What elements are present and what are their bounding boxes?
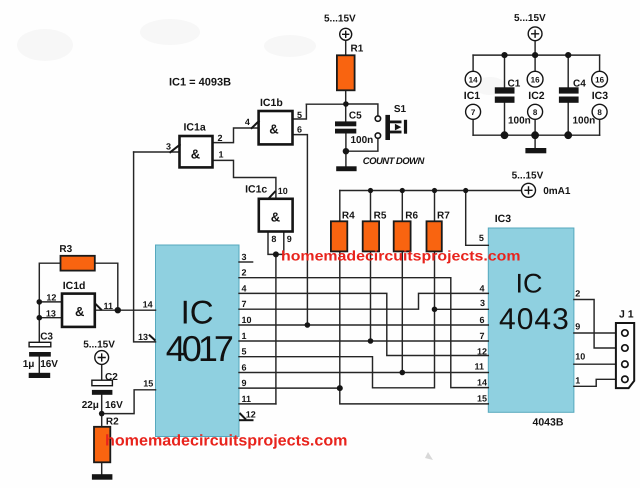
svg-text:11: 11 <box>474 362 484 372</box>
svg-text:C4: C4 <box>573 78 586 89</box>
svg-text:9: 9 <box>287 234 292 244</box>
svg-text:10: 10 <box>278 186 288 196</box>
svg-text:IC1c: IC1c <box>245 184 267 196</box>
svg-text:6: 6 <box>297 125 302 135</box>
svg-text:&: & <box>191 147 200 162</box>
svg-text:homemadecircuitsprojects.com: homemadecircuitsprojects.com <box>281 247 521 263</box>
svg-text:IC1: IC1 <box>464 90 481 102</box>
svg-text:5: 5 <box>242 347 247 357</box>
svg-text:S1: S1 <box>394 104 407 115</box>
svg-text:IC1a: IC1a <box>184 121 206 133</box>
svg-text:5...15V: 5...15V <box>83 339 115 350</box>
svg-text:100n: 100n <box>351 135 374 146</box>
svg-text:0mA1: 0mA1 <box>543 186 571 197</box>
svg-text:11: 11 <box>242 394 252 404</box>
svg-text:IC3: IC3 <box>592 90 609 102</box>
svg-text:&: & <box>271 210 280 225</box>
svg-text:IC3: IC3 <box>495 213 512 225</box>
svg-text:4: 4 <box>245 117 250 127</box>
svg-text:8: 8 <box>533 108 538 117</box>
svg-text:100n: 100n <box>508 116 531 127</box>
svg-text:16V: 16V <box>40 359 58 370</box>
svg-text:100n: 100n <box>573 116 596 127</box>
svg-text:1: 1 <box>219 150 224 160</box>
svg-text:4017: 4017 <box>166 328 234 369</box>
svg-text:C3: C3 <box>40 332 53 343</box>
svg-text:1: 1 <box>242 331 247 341</box>
svg-text:16: 16 <box>595 75 604 84</box>
svg-text:13: 13 <box>46 308 56 318</box>
svg-text:1μ: 1μ <box>23 359 35 370</box>
svg-text:IC1d: IC1d <box>63 280 86 292</box>
svg-text:2: 2 <box>218 133 223 143</box>
svg-text:IC2: IC2 <box>528 90 545 102</box>
svg-text:7: 7 <box>471 108 476 117</box>
svg-text:10: 10 <box>242 315 252 325</box>
svg-text:5: 5 <box>297 110 302 120</box>
svg-text:IC1 = 4093B: IC1 = 4093B <box>169 77 231 89</box>
svg-text:C2: C2 <box>105 372 118 383</box>
svg-text:22μ: 22μ <box>82 400 99 411</box>
svg-text:6: 6 <box>242 362 247 372</box>
svg-text:3: 3 <box>166 142 171 152</box>
svg-text:2: 2 <box>242 268 247 278</box>
svg-text:4043B: 4043B <box>533 417 564 429</box>
svg-text:R1: R1 <box>351 44 364 55</box>
svg-text:8: 8 <box>597 108 602 117</box>
svg-text:12: 12 <box>246 410 256 420</box>
svg-text:IC: IC <box>516 269 543 299</box>
svg-text:14: 14 <box>143 300 153 310</box>
svg-text:2: 2 <box>575 289 580 299</box>
svg-text:5...15V: 5...15V <box>514 13 546 24</box>
svg-text:R7: R7 <box>437 211 450 222</box>
svg-text:8: 8 <box>271 234 276 244</box>
svg-text:15: 15 <box>477 394 487 404</box>
svg-text:4: 4 <box>242 283 247 293</box>
svg-text:7: 7 <box>242 299 247 309</box>
svg-text:14: 14 <box>469 75 478 84</box>
svg-text:IC1b: IC1b <box>260 97 283 109</box>
svg-text:7: 7 <box>479 331 484 341</box>
svg-text:C5: C5 <box>349 110 362 121</box>
svg-text:9: 9 <box>242 378 247 388</box>
svg-text:&: & <box>269 122 278 137</box>
svg-text:C1: C1 <box>508 78 521 89</box>
svg-text:12: 12 <box>477 347 487 357</box>
svg-text:14: 14 <box>477 378 487 388</box>
svg-text:13: 13 <box>138 332 148 342</box>
svg-text:4043: 4043 <box>499 303 569 336</box>
svg-text:homemadecircuitsprojects.com: homemadecircuitsprojects.com <box>105 432 348 449</box>
svg-text:IC: IC <box>181 293 214 330</box>
svg-text:16V: 16V <box>105 400 123 411</box>
svg-text:R2: R2 <box>106 417 119 428</box>
svg-text:J 1: J 1 <box>619 309 634 321</box>
svg-text:R4: R4 <box>342 211 355 222</box>
svg-text:5: 5 <box>479 233 484 243</box>
svg-text:3: 3 <box>242 252 247 262</box>
svg-text:9: 9 <box>575 322 580 332</box>
svg-text:16: 16 <box>531 75 540 84</box>
svg-text:R5: R5 <box>374 211 387 222</box>
svg-text:6: 6 <box>479 315 484 325</box>
svg-text:10: 10 <box>575 352 585 362</box>
svg-text:12: 12 <box>46 293 56 303</box>
svg-text:3: 3 <box>480 298 485 308</box>
svg-text:5...15V: 5...15V <box>324 14 356 25</box>
svg-text:11: 11 <box>104 301 114 311</box>
svg-text:&: & <box>75 304 84 319</box>
svg-text:R3: R3 <box>59 244 72 255</box>
svg-text:R6: R6 <box>405 211 418 222</box>
svg-text:1: 1 <box>575 375 580 385</box>
svg-text:4: 4 <box>479 283 484 293</box>
svg-text:5...15V: 5...15V <box>512 171 544 182</box>
svg-text:COUNT DOWN: COUNT DOWN <box>363 156 426 167</box>
svg-text:15: 15 <box>143 378 153 388</box>
